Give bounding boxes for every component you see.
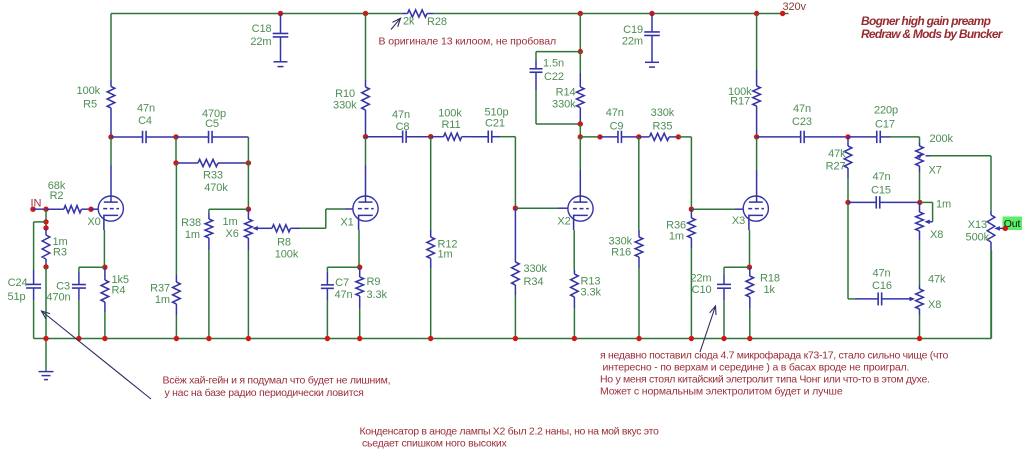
node X6 top junction [246,207,251,212]
resistor R33 470k [176,159,248,166]
resistor R34 330k grid leak [512,208,520,295]
designator label C17 [875,119,895,131]
wire rail down to R17 [756,14,758,71]
wire R33 left node down to R37 [175,163,177,275]
wire X8 mid bottom to X8 low top [919,240,921,285]
triode X1 second stage [340,196,378,230]
value label 3.3k for R9 [367,289,388,301]
potentiometer X7 200k treble [916,143,924,172]
value label 1m for R36 [669,231,684,243]
resistor R13 3.3k cathode [571,270,579,308]
resistor R16 330k [635,230,643,268]
value label 47n for C9 [606,107,624,119]
node C4-C5 junction [173,134,178,139]
svg-text:470n: 470n [46,292,70,304]
wire X8 low to ground rail [919,315,921,339]
potentiometer X7 wiper arrow [917,153,930,159]
svg-text:R2: R2 [50,190,64,202]
designator label C21 [485,118,505,130]
resistor R28 2k in series with supply rail [402,10,433,17]
svg-text:X8: X8 [928,299,941,311]
capacitor C18 22m supply filter [273,14,289,62]
value label 22m for C10 [690,273,711,285]
value label 47k for R27 [828,148,846,160]
capacitor C24 51p RF filter [26,270,41,300]
wire C17 to X7 corner [890,137,920,143]
capacitor C17 220p treble [848,131,890,143]
svg-text:X7: X7 [929,165,942,177]
svg-text:220p: 220p [874,105,898,117]
svg-text:В оригинале 13 килоом, не проб: В оригинале 13 килоом, не пробовал [379,36,557,48]
resistor R5 100k plate load [107,80,115,137]
capacitor C19 22m supply filter [644,14,660,63]
resistor R4 1k5 cathode [101,267,109,312]
node C15-X7-X8 junction [917,200,922,205]
terminal dot Out [1003,226,1008,231]
resistor R3 1m input load [42,228,50,267]
svg-text:у нас на базе радио периодичес: у нас на базе радио периодически ловится [165,387,364,399]
designator label X8 mid pot [930,229,943,241]
node X1 anode junction [363,134,368,139]
junction dot ground rail at R12 [428,336,433,341]
wire rail down to R10 [365,14,367,81]
value label 470k for R33 [204,182,228,194]
wire top supply rail right segment [433,13,783,15]
svg-text:R3: R3 [53,247,67,259]
designator label C15 [871,185,891,197]
svg-text:C22: C22 [544,71,564,83]
svg-text:X6: X6 [226,228,239,240]
svg-text:1m: 1m [155,294,170,306]
svg-text:X1: X1 [340,217,353,229]
value label 22m for C19 [622,36,643,48]
designator label R13 [581,276,601,288]
designator label R37 [150,283,170,295]
junction dot ground rail at C10 [721,336,726,341]
junction dot C9 left terminal [597,134,602,139]
svg-text:22m: 22m [690,273,711,285]
resistor R38 1m [205,213,213,250]
resistor R14 330k plate load [577,73,585,124]
wire X6 to ground rail [247,250,249,339]
svg-text:3.3k: 3.3k [367,289,388,301]
wire cathode jog to C7 [327,267,359,272]
wire X0 anode vertical [110,137,112,202]
node C22 top junction [578,49,583,54]
svg-text:C7: C7 [335,277,349,289]
node R27-C15-C16 junction [845,200,850,205]
junction dot input node [43,207,48,212]
junction dot C24 branch [43,219,48,224]
wire C3 to ground rail [78,300,80,339]
designator label R34 [524,276,544,288]
svg-text:C17: C17 [875,119,895,131]
junction dot ground rail at R36 [689,336,694,341]
svg-text:100k: 100k [438,108,462,120]
svg-text:1m: 1m [223,216,238,228]
designator label R16 [611,247,631,259]
wire C24 branch jog [34,222,46,270]
svg-text:100k: 100k [77,85,101,97]
designator label R33 [203,170,223,182]
junction dot rail at C19 [649,11,654,16]
wire X13 to ground rail corner [990,250,992,339]
designator label R35 [652,120,672,132]
junction dot R35 right terminal [676,134,681,139]
svg-text:Может с нормальным электролито: Может с нормальным электролитом будет и … [600,386,843,398]
wire C24 to ground rail corner [33,300,35,339]
svg-text:R16: R16 [611,247,631,259]
node X3 cathode junction [747,265,752,270]
svg-text:51p: 51p [7,291,25,303]
designator label R36 [666,220,686,232]
capacitor C15 47n mid [848,196,920,208]
annotation: In the original 13 kiloohm, not tried [379,36,557,48]
designator label C22 [544,71,564,83]
node X2 anode junction [578,134,583,139]
node R33 right junction [246,160,251,165]
value label 330k for R14 [552,99,576,111]
wire C16 branch down from C15 node [848,202,855,299]
value label 500k for X13 [966,232,990,244]
wire R9 to ground rail [359,308,361,339]
designator label C24 [8,277,28,289]
designator label C16 [872,280,892,292]
annotation text about hi-gain line 1 [163,375,391,387]
svg-text:500k: 500k [966,232,990,244]
svg-text:320v: 320v [783,1,807,13]
ground symbol below C19 [645,62,659,67]
svg-text:R35: R35 [652,120,672,132]
svg-text:100k: 100k [275,249,299,261]
value label 470p for C5 [202,108,226,120]
value label 3.3k for R13 [581,287,602,299]
designator label C10 [692,284,712,296]
svg-text:1.5n: 1.5n [543,58,564,70]
annotation text about C10 line 4 [600,386,843,398]
value label 51p for C24 [7,291,25,303]
wire input node down [45,209,47,228]
value label 200k for X7 [930,133,954,145]
wire X1 anode vertical [365,137,367,202]
svg-text:C21: C21 [485,118,505,130]
designator label R5 [83,99,97,111]
wire X2 cathode down [573,230,575,270]
svg-text:C19: C19 [623,24,643,36]
title text line 2 [861,27,1004,41]
resistor R8 100k [262,225,300,232]
terminal dot IN [30,207,35,212]
node X0 grid [88,207,93,212]
junction dot ground rail at X8 [917,336,922,341]
wire R37 to ground rail [175,315,177,339]
wire C21 to X2 grid corner [500,137,515,209]
annotation text about C10 line 1 [600,350,948,362]
node R33 left junction [173,160,178,165]
value label 47n for C4 [137,103,155,115]
svg-text:470k: 470k [204,182,228,194]
designator label R17 [730,96,750,108]
svg-text:1m: 1m [185,229,200,241]
junction dot rail at R10 branch [363,11,368,16]
value label 68k for R2 [48,180,66,192]
resistor R17 100k plate load [753,70,761,137]
wire R35 to X3 grid corner [678,137,691,209]
value label 100k for R11 [438,108,462,120]
svg-text:R17: R17 [730,96,750,108]
capacitor C4 47n coupling [111,131,176,143]
svg-text:R18: R18 [760,273,780,285]
value label 100k for R17 [728,86,752,98]
value label 470n for C3 [46,292,70,304]
designator label C23 [792,116,812,128]
svg-text:47k: 47k [828,148,846,160]
value label 47n for C8 [392,109,410,121]
value label 1k for R18 [764,284,776,296]
svg-text:Bogner high gain preamp: Bogner high gain preamp [861,14,991,28]
svg-text:47n: 47n [872,268,890,280]
triode X3 fourth stage [732,196,769,230]
power terminal 320v label [783,1,807,13]
node X2 grid junction [513,206,518,211]
value label 1m for R38 [185,229,200,241]
designator label C8 [396,121,410,133]
wire R13 to ground rail [573,308,575,339]
svg-text:1k: 1k [764,284,776,296]
wire C22 branch top jog [536,52,580,60]
wire R27 to C15 node [847,178,849,202]
capacitor C8 47n coupling [366,131,431,143]
svg-text:X2: X2 [557,216,570,228]
annotation text about X2 anode cap line 1 [360,426,659,438]
designator label R10 [335,88,355,100]
capacitor C7 47n cathode bypass [321,272,334,300]
potentiometer X8 mid wiper loop [920,202,933,224]
resistor R10 330k plate load [362,80,370,137]
junction dot ground rail at R9 [357,336,362,341]
svg-text:R27: R27 [826,161,846,173]
value label 47n for C7 [334,289,352,301]
capacitor C9 47n coupling [600,131,639,143]
wire X3 cathode down [749,230,751,267]
wire C5/R33 right corner down [247,137,249,163]
value label 100k for R5 [77,85,101,97]
junction dot rail at X2 plate branch [578,11,583,16]
junction dot ground rail at R18 [747,336,752,341]
svg-text:Конденсатор в аноде лампы X2 б: Конденсатор в аноде лампы X2 был 2.2 нан… [360,426,659,438]
svg-text:R37: R37 [150,283,170,295]
capacitor C10 22m cathode bypass [717,275,731,300]
designator label R4 [112,285,126,297]
resistor R27 47k [844,137,852,178]
capacitor C23 47n coupling [757,131,848,143]
junction dot ground rail at R13 [572,336,577,341]
svg-text:сьедает спишком ного высоких: сьедает спишком ного высоких [362,438,507,450]
wire X0 cathode down [103,230,105,267]
svg-text:47n: 47n [793,103,811,115]
svg-text:R28: R28 [427,16,447,28]
designator label X7 [929,165,942,177]
wire X7 wiper to X13 [930,156,991,211]
potentiometer X8 47k bass [916,285,924,315]
node X3 grid junction [689,207,694,212]
title text line 1 [861,14,991,28]
value label 1m for R37 [155,294,170,306]
svg-text:X3: X3 [732,215,745,227]
svg-text:47n: 47n [872,171,890,183]
wire R16 to ground rail [638,268,640,339]
svg-text:R9: R9 [367,276,381,288]
value label 47n for C15 [872,171,890,183]
junction dot ground rail at R34 [513,336,518,341]
designator label C4 [138,115,152,127]
value label 47n for C23 [793,103,811,115]
designator label C3 [56,281,70,293]
value label 100k for R8 [275,249,299,261]
potentiometer X13 500k volume [987,211,995,250]
resistor R2 68k grid stopper [46,206,91,213]
capacitor C3 470n cathode bypass [72,272,86,300]
wire R3 bottom to ground rail [45,267,47,339]
svg-text:330k: 330k [651,107,675,119]
wire top supply rail left segment [111,13,402,15]
svg-text:330k: 330k [552,99,576,111]
svg-text:R14: R14 [556,87,576,99]
node C9-R35 junction [636,134,641,139]
junction dot ground rail at R4 [102,336,107,341]
capacitor C16 47n bass [855,292,882,305]
annotation arrow to C24 [42,311,152,399]
value label 47n for C16 [872,268,890,280]
wire cathode jog to C10 [724,267,749,275]
svg-text:R10: R10 [335,88,355,100]
svg-text:47k: 47k [928,274,946,286]
svg-text:C5: C5 [205,118,219,130]
wire C22 branch bottom jog [536,90,580,124]
svg-text:X13: X13 [968,219,987,231]
value label 330k for R10 [333,100,357,112]
svg-text:C15: C15 [871,185,891,197]
capacitor C22 1.5n [530,60,543,90]
designator label R9 [367,276,381,288]
wire C8/R11 node down to R12 [430,137,432,230]
wire R12 to ground rail [430,268,432,339]
annotation text about C10 line 3 [600,374,930,386]
designator label C9 [610,120,624,132]
value label 330k for R16 [609,236,633,248]
resistor R11 100k [431,133,470,140]
svg-text:R8: R8 [277,237,291,249]
svg-text:1m: 1m [438,249,453,261]
value label 1m for X6 [223,216,238,228]
wire R34 to ground rail [514,295,516,339]
svg-text:R38: R38 [181,217,201,229]
wire supply rail end stub to 320v terminal [783,13,789,15]
node C23-R27-C17 junction [845,134,850,139]
designator label R27 [826,161,846,173]
wire jog to R38 top [209,209,249,213]
wire R4 to ground rail [104,312,106,339]
wire cathode jog to C3 [79,267,105,272]
designator label C18 [252,23,272,35]
wire C5 node down to R33 [175,137,177,163]
svg-text:C8: C8 [396,121,410,133]
designator label C7 [335,277,349,289]
svg-text:47n: 47n [606,107,624,119]
wire bottom ground rail [34,338,992,340]
wire X2 grid lead [515,207,567,209]
junction dot R3 top [43,225,48,230]
resistor R12 1m [427,230,435,268]
junction dot ground rail at C3 [76,336,81,341]
svg-text:330k: 330k [333,100,357,112]
svg-text:R11: R11 [441,119,460,131]
svg-text:R5: R5 [83,99,97,111]
wire R14 node to X2 anode node [579,124,581,137]
designator label R28 [427,16,447,28]
svg-text:R4: R4 [112,285,126,297]
svg-text:C9: C9 [610,120,624,132]
potentiometer X6 1m gain [245,209,253,250]
junction dot R3 bottom [43,264,48,269]
junction dot ground rail at R37 [174,336,179,341]
value label 1m for X8 mid pot [936,199,951,211]
wire down to X6 top [247,163,249,209]
capacitor C5 470p bright cap [176,131,248,143]
svg-text:R33: R33 [203,170,223,182]
designator label R2 [50,190,64,202]
designator label R3 [53,247,67,259]
ground symbol below C18 [274,62,288,67]
wire C10 to ground rail [723,300,725,339]
annotation text about hi-gain line 2 [165,387,364,399]
wire X3 grid lead [691,208,742,210]
svg-text:22m: 22m [250,36,271,48]
designator label R38 [181,217,201,229]
value label 1m for R12 [438,249,453,261]
designator label R8 [277,237,291,249]
value label 1.5n for C22 [543,58,564,70]
svg-text:1m: 1m [936,199,951,211]
wire R14 top lead [579,52,581,73]
terminal dot 320v [780,11,785,16]
junction dot ground rail at R38 [206,336,211,341]
wire IN to R2 [33,208,46,210]
annotation arrow to C10 [700,306,716,352]
annotation arrow pointing to R28 value [391,18,401,29]
junction dot ground rail at C7 [325,336,330,341]
svg-text:2k: 2k [403,16,415,28]
annotation text about C10 line 2 [603,362,910,374]
svg-text:C4: C4 [138,115,152,127]
wire R18 to ground rail [749,308,751,339]
ground symbol main [39,339,54,380]
wire from rail down to R5 [110,14,112,81]
svg-text:я недавно поставил сюда 4.7 ми: я недавно поставил сюда 4.7 микрофарада … [600,350,948,362]
designator label R18 [760,273,780,285]
junction dot ground rail at R3/C24 [43,336,48,341]
svg-text:Redraw & Mods by Buncker: Redraw & Mods by Buncker [861,27,1004,41]
junction dot ground rail at X6 [246,336,251,341]
designator label R11 [441,119,460,131]
svg-text:X8: X8 [930,229,943,241]
svg-text:Всёж хай-гейн и я подумал что: Всёж хай-гейн и я подумал что будет не л… [163,375,391,387]
svg-text:интересно - по верхам и середи: интересно - по верхам и середине ) а в б… [603,362,910,374]
node R14 bottom junction [578,121,583,126]
wire R36 to ground rail [690,248,692,339]
svg-text:1m: 1m [669,231,684,243]
node X0 anode junction [108,134,113,139]
